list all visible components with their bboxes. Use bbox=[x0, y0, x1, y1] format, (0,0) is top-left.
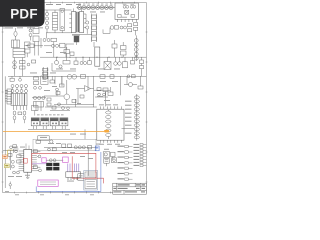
diode D901 bbox=[50, 140, 53, 143]
tiny text dashes scattered bbox=[5, 4, 134, 196]
transformer T1 pins bbox=[69, 8, 86, 27]
test point labels left bbox=[118, 146, 124, 180]
magenta connector CN6 bbox=[38, 180, 58, 186]
ground stub U901 bbox=[26, 172, 29, 178]
transformer T1 secondary winding bbox=[79, 12, 83, 33]
error amp IC803 bbox=[76, 86, 94, 92]
micro IC U901 bbox=[24, 149, 32, 172]
test point TP12 bbox=[140, 156, 146, 158]
option block outline bbox=[84, 171, 98, 191]
capacitor C913 bbox=[37, 155, 41, 158]
resistor R824 bbox=[131, 57, 135, 64]
line filter FL1 bbox=[53, 10, 58, 33]
yoke side connector bbox=[5, 89, 25, 106]
resistor R855 bbox=[97, 88, 101, 91]
resistor R811 bbox=[128, 29, 132, 32]
transformer T904 bbox=[50, 118, 58, 130]
test point TP13 bbox=[140, 159, 146, 161]
line output modules row: transformer T902 bbox=[31, 118, 39, 130]
resistor R903 bbox=[68, 144, 72, 148]
filter block FB2 bbox=[34, 102, 44, 112]
capacitor C838 bbox=[56, 88, 59, 96]
PDF badge bbox=[0, 0, 45, 27]
resistor R902 bbox=[62, 144, 66, 148]
resistor R910 bbox=[17, 155, 21, 158]
diode D910 pair bbox=[13, 171, 20, 174]
standby coil B bbox=[130, 5, 136, 8]
test point TP2 bbox=[125, 151, 133, 153]
transistor Q806 bbox=[124, 76, 137, 86]
capacitor C845 bbox=[112, 40, 117, 57]
resistor R912 bbox=[8, 154, 12, 161]
left mesh cluster bbox=[3, 76, 41, 189]
wire under standby parts bbox=[103, 28, 110, 34]
capacitor C820 pair bbox=[80, 57, 87, 64]
CN1 top pins bbox=[100, 106, 121, 109]
transistor Q804 bbox=[72, 75, 77, 80]
diode D811 bbox=[110, 26, 118, 30]
resistor R806 bbox=[20, 61, 26, 70]
horizontal supply rail bbox=[8, 75, 146, 77]
title block text bbox=[113, 184, 145, 192]
resistor R849 bbox=[50, 106, 70, 111]
resistor R847 bbox=[80, 95, 84, 98]
standby box pins bbox=[118, 19, 137, 22]
transistor Q805 bbox=[64, 80, 70, 104]
capacitor C846 pair bbox=[98, 93, 106, 96]
test point TP3 bbox=[125, 156, 133, 158]
capacitor C914 bbox=[37, 169, 42, 172]
label box service bbox=[78, 174, 84, 180]
wire between pink nodes bbox=[46, 159, 63, 162]
orange B plus wire bbox=[3, 131, 104, 133]
snubber ladder CN3 bbox=[92, 14, 97, 48]
capacitor pair C835 bbox=[34, 86, 42, 89]
resistor R854 bbox=[108, 87, 113, 96]
varistor cluster bbox=[29, 27, 32, 41]
test point TP14 bbox=[140, 162, 146, 164]
resistor R807 bbox=[51, 38, 57, 57]
snubber box bbox=[41, 76, 48, 84]
IC U901 pins bbox=[19, 144, 37, 171]
test point TP11 bbox=[140, 153, 146, 155]
fuse link chain F801 row bbox=[77, 5, 116, 9]
transistor Q803 bbox=[67, 75, 72, 80]
red signal wire loop bbox=[32, 153, 104, 183]
purple link wire bbox=[32, 163, 46, 165]
capacitor C916 bbox=[9, 182, 11, 190]
capacitor C810 pair bbox=[120, 26, 127, 29]
resistor R853 bbox=[138, 76, 143, 89]
bus junction dots bbox=[56, 57, 136, 58]
deflection yoke coils row 1 bbox=[11, 85, 28, 88]
test point list right column bbox=[140, 144, 146, 167]
resistor R831 bbox=[100, 75, 105, 79]
standby coil A bbox=[123, 5, 129, 8]
capacitor C821 pair bbox=[114, 57, 122, 65]
deflection yoke coils row 2 bbox=[11, 88, 28, 93]
capacitor C805 bbox=[13, 61, 17, 69]
diode D810 pair bbox=[127, 75, 135, 78]
test point TP9 bbox=[140, 147, 146, 149]
option row box 1 bbox=[85, 172, 96, 178]
ladder input wire bbox=[122, 127, 135, 129]
capacitor CX1 bbox=[60, 9, 65, 33]
CN1 feed wire bbox=[45, 99, 97, 107]
rail drop wires bbox=[55, 76, 120, 107]
resistor R914 bbox=[33, 166, 40, 169]
wire secondary return bbox=[52, 63, 76, 71]
resistor R841 bbox=[34, 77, 39, 80]
test point TP1 bbox=[125, 145, 133, 147]
vertical drop wires bbox=[85, 129, 88, 176]
resistor R913 bbox=[33, 150, 40, 153]
test point list left column bbox=[125, 145, 133, 180]
capacitor C911 bbox=[11, 165, 14, 168]
module inner contacts bbox=[33, 123, 67, 125]
standby regulator X bbox=[125, 10, 129, 14]
connector CN2 pins bbox=[6, 91, 9, 94]
purple ribbon wires bbox=[68, 164, 79, 172]
resistor R848 bbox=[47, 98, 51, 106]
test point TP4 bbox=[125, 162, 133, 164]
test point TP15 bbox=[140, 165, 146, 167]
transformer T903 bbox=[41, 118, 49, 130]
main line-art group bbox=[3, 3, 146, 176]
capacitor C912 bbox=[14, 149, 19, 153]
aux cluster bbox=[112, 158, 117, 163]
rectifier stack D812 bbox=[134, 23, 138, 36]
protection area outline bbox=[33, 139, 96, 150]
degauss posistor cluster bbox=[3, 28, 17, 40]
transistor Q802 bbox=[86, 14, 89, 34]
capacitor C807 bbox=[64, 47, 70, 57]
connector CN5 bbox=[66, 172, 81, 180]
relay RL2 bbox=[25, 42, 31, 57]
standby small parts bbox=[118, 15, 135, 18]
capacitor C806 pair bbox=[43, 33, 50, 42]
chopper Q810 bbox=[66, 36, 79, 57]
capacitor C812 stack bbox=[121, 42, 127, 57]
module caps dark fills bbox=[32, 118, 68, 121]
transformer T1 primary winding bbox=[72, 12, 76, 33]
resistor ladder R860 bbox=[43, 67, 48, 79]
capacitor C831 pair bbox=[13, 111, 16, 120]
capacitor C841 bbox=[67, 107, 70, 110]
yellow sense wire bbox=[8, 150, 13, 155]
resistor R901 bbox=[36, 140, 40, 143]
bias wire bbox=[44, 95, 64, 97]
resistor R911 bbox=[17, 160, 21, 163]
secondary coil stack L803 bbox=[134, 35, 138, 61]
red accent box on IC bbox=[23, 158, 27, 163]
resistor R820 bbox=[63, 57, 70, 64]
ladder labels bbox=[125, 101, 132, 134]
resistor R830 bbox=[81, 75, 86, 79]
blue sync node box bbox=[95, 146, 99, 151]
capacitor C834 bbox=[19, 76, 22, 81]
main B+ bus bbox=[40, 56, 146, 58]
feedback wire bbox=[54, 89, 94, 105]
thermistor TH801 bbox=[44, 43, 65, 48]
yellow label box bbox=[4, 164, 9, 168]
driver cluster bbox=[32, 106, 39, 116]
resistor R845 bbox=[56, 92, 60, 95]
small cluster R852 bbox=[103, 88, 108, 96]
resistor R904 bbox=[88, 146, 92, 149]
electrolytic stubs bbox=[15, 120, 25, 123]
sense wire bbox=[40, 38, 42, 48]
capacitor C803 bbox=[33, 29, 39, 56]
regulator IC U802 bbox=[95, 47, 100, 66]
transistor Q801 bbox=[55, 57, 63, 68]
test point labels right bbox=[134, 144, 140, 166]
blue return wire bbox=[36, 152, 101, 191]
resistor R832 bbox=[110, 75, 114, 79]
capacitor C840 bbox=[58, 103, 65, 110]
resistor R846 bbox=[72, 100, 76, 103]
heater ladder L905 bbox=[134, 94, 139, 141]
inductor L1 coil stack bbox=[45, 10, 48, 33]
title block bbox=[113, 183, 147, 194]
diode D813 stack bbox=[140, 64, 144, 77]
resistor R833 bbox=[10, 76, 14, 81]
resistor R844 bbox=[60, 76, 65, 87]
CN1 contact column bbox=[106, 110, 111, 139]
resistor R825 bbox=[140, 57, 144, 63]
resistor R810 bbox=[128, 24, 132, 27]
relay RL1 bbox=[12, 40, 20, 48]
orange highlighted contact bbox=[104, 130, 109, 133]
test point TP7 bbox=[125, 178, 133, 180]
orange label box bbox=[3, 155, 8, 159]
pink node box P1 bbox=[42, 158, 46, 163]
test point TP5 bbox=[125, 167, 133, 169]
drawing border frame (decorative) bbox=[2, 2, 148, 194]
standby supply box bbox=[115, 3, 138, 19]
svg-text:PDF: PDF bbox=[10, 6, 38, 21]
black header grid J1 bbox=[46, 163, 59, 171]
transformer T905 bbox=[60, 118, 68, 130]
resistor R842 bbox=[34, 82, 39, 85]
bridge BR2 bbox=[104, 57, 111, 69]
yoke interface block bbox=[11, 93, 27, 106]
CN1 bottom pins bbox=[100, 140, 121, 143]
resistor R920 bbox=[111, 152, 115, 160]
transformer T1 core bbox=[76, 12, 78, 33]
resistor R808 bbox=[26, 44, 43, 48]
wire top feed bbox=[44, 10, 92, 35]
diode row D903 bbox=[74, 146, 85, 149]
mains filter block bbox=[13, 49, 25, 77]
block output pins bbox=[14, 106, 27, 111]
resistor R809 bbox=[70, 52, 74, 56]
label box hot warning bbox=[38, 136, 49, 141]
resistor R834 bbox=[27, 60, 36, 66]
regulator cluster wires bbox=[94, 90, 110, 106]
capacitor C901 bbox=[48, 148, 57, 151]
option row box 2 bbox=[85, 179, 96, 188]
capacitor C915 bbox=[10, 145, 17, 149]
signal row wire bbox=[44, 146, 96, 148]
resistor R823 bbox=[123, 57, 128, 68]
resistor R821 bbox=[74, 57, 78, 64]
module return wire bbox=[28, 128, 70, 130]
pink node box P2 bbox=[63, 157, 69, 162]
resistor R840 bbox=[18, 112, 22, 115]
capacitor C832 pair bbox=[23, 111, 26, 120]
diode row D820 bbox=[32, 96, 46, 99]
capacitor C910 bbox=[11, 160, 14, 163]
test point TP6 bbox=[125, 173, 133, 175]
resistor R822 bbox=[88, 57, 92, 64]
crystal X901 bbox=[103, 152, 110, 166]
resistor R843 bbox=[50, 76, 55, 83]
test point TP10 bbox=[140, 150, 146, 152]
main connector CN1 shell bbox=[97, 109, 124, 140]
test point TP8 bbox=[140, 144, 146, 146]
left service wire bbox=[3, 76, 18, 188]
